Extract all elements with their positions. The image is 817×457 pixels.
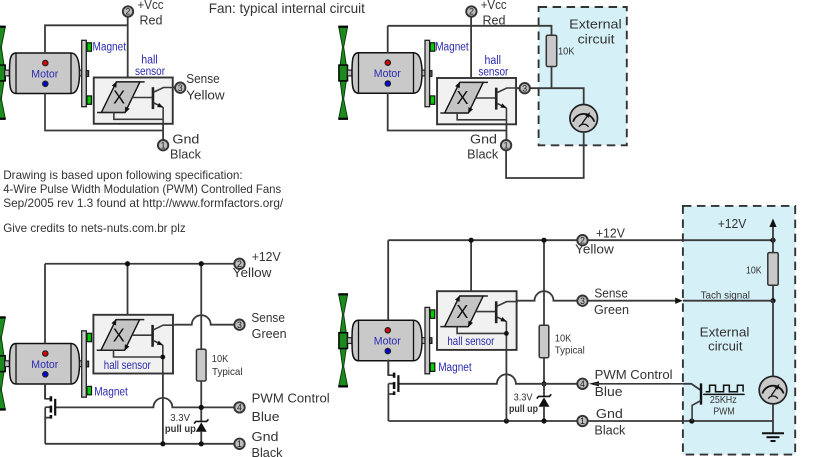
svg-text:Sense: Sense xyxy=(186,72,220,86)
svg-text:1: 1 xyxy=(161,140,166,150)
svg-text:+12V: +12V xyxy=(596,226,626,240)
svg-text:Yellow: Yellow xyxy=(186,89,226,103)
svg-text:X: X xyxy=(456,88,468,108)
svg-text:Motor: Motor xyxy=(374,68,401,80)
svg-text:10K: 10K xyxy=(212,353,229,365)
svg-text:hall: hall xyxy=(141,54,158,66)
svg-text:Yellow: Yellow xyxy=(233,266,273,280)
svg-text:Blue: Blue xyxy=(595,385,623,399)
svg-text:1: 1 xyxy=(504,140,509,150)
svg-text:10K: 10K xyxy=(558,45,575,57)
svg-text:pull up: pull up xyxy=(165,423,196,435)
svg-text:Red: Red xyxy=(140,13,163,27)
svg-text:3.3V: 3.3V xyxy=(514,391,533,403)
svg-text:Gnd: Gnd xyxy=(596,407,623,421)
svg-text:4: 4 xyxy=(580,379,585,389)
svg-text:Drawing is based upon followin: Drawing is based upon following specific… xyxy=(3,168,243,182)
svg-text:X: X xyxy=(113,88,125,108)
svg-text:3: 3 xyxy=(580,296,585,306)
svg-text:circuit: circuit xyxy=(578,31,615,46)
svg-text:sensor: sensor xyxy=(135,66,165,78)
svg-text:1: 1 xyxy=(237,439,242,449)
svg-text:Magnet: Magnet xyxy=(93,42,127,54)
svg-text:Tach signal: Tach signal xyxy=(701,289,750,301)
svg-text:+12V: +12V xyxy=(252,250,282,264)
svg-text:Blue: Blue xyxy=(252,410,280,424)
svg-text:Gnd: Gnd xyxy=(470,133,497,147)
svg-text:2: 2 xyxy=(126,7,131,17)
svg-text:25KHz: 25KHz xyxy=(710,394,737,406)
svg-text:Motor: Motor xyxy=(31,359,58,371)
svg-text:hall sensor: hall sensor xyxy=(104,358,151,372)
svg-text:10K: 10K xyxy=(555,332,572,344)
svg-text:Red: Red xyxy=(483,13,506,27)
svg-text:Motor: Motor xyxy=(31,68,58,80)
svg-text:10K: 10K xyxy=(746,265,762,277)
svg-text:Fan: typical internal circuit: Fan: typical internal circuit xyxy=(209,0,365,16)
svg-text:Sep/2005 rev 1.3 found at http: Sep/2005 rev 1.3 found at http://www.for… xyxy=(3,196,284,210)
svg-text:Gnd: Gnd xyxy=(172,133,199,147)
svg-text:Motor: Motor xyxy=(374,336,401,348)
svg-text:Magnet: Magnet xyxy=(435,42,469,54)
svg-text:4: 4 xyxy=(237,403,242,413)
svg-text:2: 2 xyxy=(469,7,474,17)
svg-text:sensor: sensor xyxy=(478,66,508,78)
svg-text:Give credits to nets-nuts.com.: Give credits to nets-nuts.com.br plz xyxy=(3,221,186,235)
svg-text:Black: Black xyxy=(252,446,284,457)
svg-text:PWM: PWM xyxy=(713,406,734,418)
svg-text:1: 1 xyxy=(580,416,585,426)
svg-text:Magnet: Magnet xyxy=(438,362,472,374)
svg-text:3: 3 xyxy=(178,83,183,93)
svg-text:circuit: circuit xyxy=(708,339,743,354)
svg-text:Yellow: Yellow xyxy=(575,243,615,257)
svg-text:Black: Black xyxy=(467,147,499,161)
svg-text:Magnet: Magnet xyxy=(94,386,128,398)
svg-text:X: X xyxy=(456,302,468,322)
svg-text:Sense: Sense xyxy=(251,311,285,325)
svg-text:pull up: pull up xyxy=(509,403,538,415)
svg-text:Green: Green xyxy=(252,327,287,341)
svg-text:+Vcc: +Vcc xyxy=(138,0,164,12)
svg-text:Typical: Typical xyxy=(555,345,585,357)
svg-text:3: 3 xyxy=(522,83,527,93)
svg-text:Sense: Sense xyxy=(594,287,628,301)
svg-text:External: External xyxy=(700,325,750,340)
svg-text:hall: hall xyxy=(485,55,502,67)
svg-text:Black: Black xyxy=(594,423,626,437)
svg-text:+12V: +12V xyxy=(718,217,747,231)
svg-text:Typical: Typical xyxy=(212,366,243,378)
svg-text:4-Wire Pulse Width Modulation: 4-Wire Pulse Width Modulation (PWM) Cont… xyxy=(3,182,281,196)
svg-text:3: 3 xyxy=(237,320,242,330)
svg-text:+Vcc: +Vcc xyxy=(481,0,507,12)
svg-text:Gnd: Gnd xyxy=(252,430,279,444)
svg-text:PWM Control: PWM Control xyxy=(595,368,673,382)
svg-text:X: X xyxy=(113,325,125,345)
svg-text:PWM Control: PWM Control xyxy=(252,392,330,406)
svg-text:Black: Black xyxy=(170,147,202,161)
svg-text:External: External xyxy=(569,16,622,31)
svg-text:hall sensor: hall sensor xyxy=(447,334,494,348)
svg-text:Green: Green xyxy=(594,303,629,317)
